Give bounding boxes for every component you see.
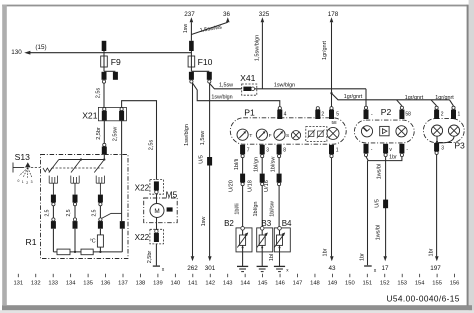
- svg-text:1,5sw: 1,5sw: [219, 83, 233, 89]
- svg-text:1bl/sw: 1bl/sw: [271, 157, 277, 173]
- svg-text:147: 147: [293, 281, 303, 287]
- svg-text:2,5s: 2,5s: [148, 140, 154, 151]
- svg-text:156: 156: [450, 281, 460, 287]
- svg-text:2,5: 2,5: [45, 209, 51, 216]
- svg-text:(15): (15): [35, 44, 46, 51]
- svg-text:237: 237: [184, 11, 195, 18]
- svg-text:1: 1: [458, 111, 461, 117]
- svg-text:1bl/gn: 1bl/gn: [254, 157, 260, 172]
- svg-text:152: 152: [380, 281, 390, 287]
- svg-text:2: 2: [321, 111, 324, 117]
- svg-text:2,5s: 2,5s: [95, 88, 101, 99]
- svg-text:U/16: U/16: [264, 180, 270, 192]
- svg-text:B4: B4: [282, 219, 292, 228]
- svg-text:5: 5: [336, 111, 339, 117]
- svg-text:U54.00-0040/6-15: U54.00-0040/6-15: [387, 294, 460, 304]
- svg-text:140: 140: [171, 281, 181, 287]
- svg-text:1gr/gnrt: 1gr/gnrt: [405, 95, 424, 101]
- svg-text:X41: X41: [240, 73, 256, 83]
- svg-text:4: 4: [284, 111, 287, 117]
- svg-text:141: 141: [188, 281, 198, 287]
- svg-text:1bl: 1bl: [269, 254, 275, 261]
- svg-text:8: 8: [283, 148, 286, 154]
- svg-text:58: 58: [331, 120, 337, 125]
- svg-text:1,5sw: 1,5sw: [200, 131, 206, 145]
- svg-text:U/5: U/5: [198, 155, 204, 164]
- svg-text:2: 2: [26, 181, 28, 185]
- svg-text:3: 3: [441, 146, 444, 152]
- svg-text:148: 148: [310, 281, 320, 287]
- svg-text:2,5: 2,5: [66, 209, 72, 216]
- svg-text:154: 154: [415, 281, 425, 287]
- svg-text:135: 135: [83, 281, 93, 287]
- svg-text:U/20: U/20: [229, 180, 235, 192]
- svg-text:F: F: [269, 133, 272, 139]
- svg-text:17: 17: [381, 265, 389, 272]
- svg-text:T: T: [249, 133, 252, 139]
- svg-text:144: 144: [240, 281, 250, 287]
- svg-text:M: M: [154, 208, 159, 215]
- svg-text:178: 178: [328, 11, 339, 18]
- svg-text:2: 2: [441, 111, 444, 117]
- svg-text:1br: 1br: [428, 248, 434, 256]
- svg-text:132: 132: [31, 281, 41, 287]
- svg-text:1gr/gnrt: 1gr/gnrt: [344, 94, 363, 100]
- svg-text:143: 143: [223, 281, 233, 287]
- svg-text:1sw/blgn: 1sw/blgn: [274, 83, 295, 89]
- svg-text:1br: 1br: [359, 253, 365, 261]
- svg-text:P3: P3: [454, 140, 465, 150]
- svg-text:262: 262: [187, 265, 198, 272]
- svg-text:1sw: 1sw: [201, 217, 207, 227]
- svg-text:1gr/gnrt: 1gr/gnrt: [435, 95, 454, 101]
- svg-text:131: 131: [13, 281, 23, 287]
- svg-text:2,5br: 2,5br: [147, 251, 153, 264]
- svg-text:-: -: [371, 112, 373, 118]
- svg-text:197: 197: [430, 265, 441, 272]
- svg-text:3: 3: [31, 180, 33, 184]
- svg-text:1bl/sw: 1bl/sw: [270, 201, 276, 217]
- svg-text:°C: °C: [90, 239, 96, 245]
- svg-text:1bl/gn: 1bl/gn: [253, 202, 259, 217]
- svg-text:145: 145: [258, 281, 268, 287]
- svg-text:136: 136: [101, 281, 111, 287]
- svg-text:U/18: U/18: [248, 180, 254, 192]
- svg-text:1sw/blgn: 1sw/blgn: [184, 124, 190, 146]
- svg-text:1br: 1br: [389, 155, 397, 161]
- svg-text:1bl/li: 1bl/li: [234, 159, 240, 170]
- svg-text:36: 36: [223, 11, 231, 18]
- svg-text:B2: B2: [224, 219, 234, 228]
- svg-text:X22: X22: [135, 183, 150, 192]
- svg-text:133: 133: [48, 281, 58, 287]
- svg-text:130: 130: [11, 49, 22, 56]
- svg-text:1bl/li: 1bl/li: [235, 203, 241, 214]
- svg-text:P1: P1: [244, 108, 255, 118]
- svg-text:X22: X22: [135, 233, 150, 242]
- svg-text:2,5br: 2,5br: [96, 127, 102, 140]
- svg-text:151: 151: [362, 281, 372, 287]
- svg-text:153: 153: [397, 281, 407, 287]
- svg-text:1,5sw/blgn: 1,5sw/blgn: [254, 35, 260, 61]
- svg-text:325: 325: [259, 11, 270, 18]
- svg-text:1ws/bl: 1ws/bl: [376, 164, 382, 180]
- svg-text:146: 146: [275, 281, 285, 287]
- svg-text:138: 138: [136, 281, 146, 287]
- svg-text:2,5sw: 2,5sw: [112, 127, 118, 141]
- svg-text:F10: F10: [198, 57, 213, 67]
- svg-text:137: 137: [118, 281, 128, 287]
- svg-text:58: 58: [405, 112, 411, 118]
- svg-text:155: 155: [432, 281, 442, 287]
- svg-text:0: 0: [18, 179, 20, 183]
- svg-text:F9: F9: [111, 57, 121, 67]
- svg-text:P2: P2: [381, 107, 392, 117]
- svg-text:1: 1: [336, 148, 339, 154]
- svg-text:139: 139: [153, 281, 163, 287]
- svg-text:1sw: 1sw: [183, 24, 189, 33]
- svg-text:301: 301: [205, 265, 216, 272]
- svg-text:43: 43: [328, 265, 336, 272]
- svg-text:U/5: U/5: [374, 199, 380, 208]
- svg-text:1sw/blgn: 1sw/blgn: [211, 95, 232, 101]
- svg-text:X21: X21: [82, 110, 98, 120]
- svg-text:2,5: 2,5: [92, 209, 98, 216]
- svg-text:150: 150: [345, 281, 355, 287]
- svg-text:1br: 1br: [322, 248, 328, 256]
- svg-text:1ws/bl: 1ws/bl: [375, 225, 381, 241]
- svg-text:134: 134: [66, 281, 76, 287]
- svg-text:7: 7: [247, 148, 250, 154]
- svg-text:1gr/gnrt: 1gr/gnrt: [322, 41, 328, 60]
- svg-text:3: 3: [266, 148, 269, 154]
- svg-text:149: 149: [328, 281, 338, 287]
- svg-text:142: 142: [205, 281, 215, 287]
- svg-text:S13: S13: [15, 152, 31, 162]
- svg-text:R1: R1: [26, 237, 37, 247]
- svg-text:1: 1: [22, 180, 24, 184]
- svg-text:S: S: [286, 133, 289, 139]
